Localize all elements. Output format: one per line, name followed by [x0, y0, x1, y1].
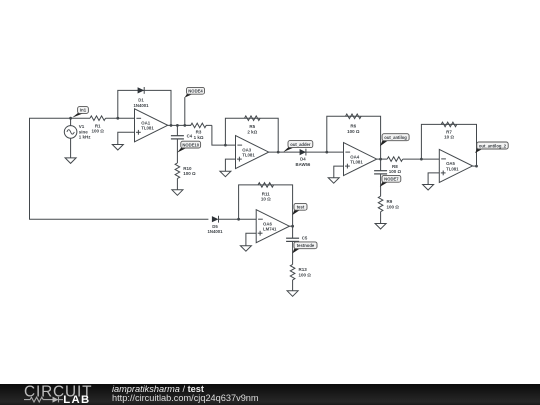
wire D5 to OA6 inverting input	[219, 218, 257, 220]
svg-text:TL081: TL081	[446, 166, 459, 171]
svg-text:1N4001: 1N4001	[133, 103, 149, 108]
node R7 feedback tap	[420, 158, 423, 161]
svg-text:D1: D1	[138, 98, 144, 103]
wire R6 feedback loop	[327, 116, 381, 159]
svg-text:BAW56: BAW56	[295, 162, 310, 167]
op-amp OA1 TL081	[135, 109, 168, 142]
node OA3 output junction	[277, 151, 280, 154]
node flag testnode	[292, 242, 317, 254]
capacitor C6	[374, 171, 387, 174]
node R11 feedback tap	[237, 218, 240, 221]
node NODE4 branch junction	[183, 124, 186, 127]
resistor R7	[441, 122, 457, 127]
svg-text:test: test	[297, 205, 305, 210]
capacitor C5	[286, 238, 299, 241]
svg-text:R7: R7	[446, 129, 452, 134]
value label D5 1N4001	[207, 224, 223, 234]
svg-text:D4: D4	[300, 157, 306, 162]
op-amp OA5 TL081	[439, 149, 472, 182]
resistor R11	[258, 183, 274, 188]
svg-text:10 Ω: 10 Ω	[261, 197, 271, 202]
resistor R13	[290, 264, 295, 280]
ground for OA6	[240, 246, 251, 252]
wire NODE4 stem	[184, 97, 186, 125]
wire OA6 output to C5	[292, 226, 294, 238]
svg-text:sine: sine	[79, 129, 89, 134]
svg-text:R9: R9	[387, 199, 393, 204]
svg-text:R3: R3	[196, 130, 202, 135]
footer text	[112, 385, 259, 403]
voltage source V1 sine	[64, 118, 77, 158]
svg-text:in1: in1	[80, 108, 87, 113]
value label R5 2 kOhm	[247, 124, 257, 134]
node flag out_antilog	[380, 134, 409, 147]
ground for R13	[287, 291, 298, 297]
ground for R9	[375, 224, 386, 230]
wire R13 to ground	[292, 280, 294, 291]
op-amp OA6 LM741	[256, 210, 289, 243]
wire D1 feedback loop	[118, 90, 171, 125]
svg-text:R8: R8	[392, 164, 398, 169]
svg-text:C4: C4	[187, 134, 193, 139]
node flag NODE10	[177, 141, 200, 152]
value label R7 10 Ohm	[444, 129, 454, 139]
node OA1 output junction	[170, 124, 173, 127]
ground for R10	[172, 190, 183, 196]
svg-text:TL081: TL081	[141, 126, 154, 131]
svg-text:R13: R13	[299, 267, 308, 272]
svg-text:100 Ω: 100 Ω	[299, 273, 312, 278]
value label R1 100 Ohm	[92, 123, 105, 133]
value label R8 100 Ohm	[389, 164, 402, 174]
svg-text:1 kΩ: 1 kΩ	[194, 135, 204, 140]
wire R3 to OA3 inverting input	[212, 125, 236, 145]
wire V1 to R1	[71, 117, 90, 119]
value label R9 100 Ohm	[387, 199, 400, 209]
value label R11 10 Ohm	[261, 191, 271, 201]
wire R5 feedback loop	[225, 118, 278, 152]
diode D1	[138, 87, 145, 94]
diode D5	[212, 216, 219, 223]
wire OA5 output	[473, 165, 477, 167]
svg-text:1N4001: 1N4001	[207, 229, 223, 234]
svg-text:100 Ω: 100 Ω	[183, 171, 196, 176]
svg-text:10 Ω: 10 Ω	[444, 135, 454, 140]
resistor R1	[90, 116, 106, 121]
value label R10 100 Ohm	[183, 166, 196, 176]
svg-text:R10: R10	[183, 166, 192, 171]
resistor R10	[175, 163, 180, 179]
svg-text:NODE7: NODE7	[384, 177, 399, 182]
node flag NODE4	[185, 87, 205, 97]
wire R8 to OA5 inverting input	[403, 158, 440, 160]
svg-text:out_antilog_2: out_antilog_2	[479, 143, 507, 148]
value label V1 sine 1 kHz	[79, 124, 92, 140]
wire R9 to ground	[380, 212, 382, 224]
node C4 branch junction	[176, 124, 179, 127]
wire OA3 output to OA4 inverting input	[269, 151, 344, 153]
value label D1 1N4001	[133, 98, 149, 108]
footer bar	[0, 384, 540, 405]
value label R13 100 Ohm	[299, 267, 312, 277]
ground for OA4	[328, 178, 339, 184]
node flag out_antilog_2	[475, 142, 508, 153]
wire C6 to R9	[380, 174, 382, 196]
wire OA4 output to R8	[377, 158, 388, 160]
svg-text:NODE10: NODE10	[182, 142, 199, 147]
wire input rail left	[30, 118, 209, 219]
svg-text:100 Ω: 100 Ω	[389, 169, 402, 174]
svg-text:D5: D5	[212, 224, 218, 229]
ground for OA3	[220, 171, 231, 177]
node flag test	[292, 203, 307, 215]
svg-text:100 Ω: 100 Ω	[92, 129, 105, 134]
node OA5 output junction	[475, 165, 478, 168]
svg-text:TL081: TL081	[242, 153, 255, 158]
wire OA1 output	[168, 124, 191, 126]
wire C5 to R13	[292, 241, 294, 264]
value label R3 1 kOhm	[194, 130, 204, 140]
wire R10 to ground	[176, 179, 178, 190]
svg-text:R5: R5	[249, 124, 255, 129]
wire OA5 noninverting input to ground	[428, 173, 439, 185]
node D1 feedback tap	[116, 117, 119, 120]
value label D4 BAW56	[295, 157, 310, 167]
ground for V1	[65, 158, 76, 164]
svg-text:V1: V1	[79, 124, 85, 129]
resistor R8	[387, 157, 403, 162]
wire R11 feedback loop	[239, 185, 293, 226]
svg-text:2 kΩ: 2 kΩ	[247, 129, 257, 134]
resistor R6	[346, 114, 362, 119]
svg-text:100 Ω: 100 Ω	[347, 129, 360, 134]
svg-text:NODE4: NODE4	[188, 89, 203, 94]
wire OA4 output to C6 branch	[380, 159, 382, 171]
node R6 feedback tap	[325, 151, 328, 154]
node OA4 output junction	[379, 158, 382, 161]
svg-text:out_antilog: out_antilog	[384, 135, 407, 140]
op-amp OA3 TL081	[236, 136, 269, 169]
svg-text:R6: R6	[350, 124, 356, 129]
node R5 feedback tap	[224, 144, 227, 147]
ground for OA5	[423, 185, 434, 191]
resistor R3	[185, 123, 212, 128]
wire R7 feedback loop	[421, 124, 476, 166]
wire C4 branch down	[176, 125, 178, 135]
svg-text:R1: R1	[95, 123, 101, 128]
wire OA4 noninverting input to ground	[334, 166, 344, 178]
resistor R5	[245, 116, 261, 121]
svg-text:1 kHz: 1 kHz	[79, 135, 92, 140]
capacitor C4	[171, 136, 184, 139]
svg-text:LM741: LM741	[263, 227, 277, 232]
resistor R9	[378, 196, 383, 212]
diode D4	[300, 149, 306, 156]
ground for OA1	[112, 145, 123, 151]
svg-text:C5: C5	[302, 235, 308, 240]
svg-text:testnode: testnode	[297, 243, 315, 248]
node flag in1	[72, 107, 88, 118]
wire OA6 noninverting input to ground	[246, 233, 256, 246]
wire R1 to OA1 inverting input	[106, 117, 135, 119]
wire OA3 noninverting input to ground	[225, 159, 235, 171]
CircuitLab logo	[0, 384, 92, 405]
value label R6 100 Ohm	[347, 124, 360, 134]
node flag NODE7	[380, 175, 401, 187]
svg-text:100 Ω: 100 Ω	[387, 204, 400, 209]
node flag out_adder	[283, 141, 313, 152]
wire OA6 output	[289, 225, 292, 227]
svg-text:LAB: LAB	[63, 395, 90, 405]
op-amp OA4 TL081	[344, 143, 377, 176]
wire C4 to R10	[176, 139, 178, 163]
svg-text:R11: R11	[262, 191, 271, 196]
svg-text:TL081: TL081	[350, 160, 363, 165]
wire OA1 noninverting input to ground	[118, 132, 135, 144]
svg-text:out_adder: out_adder	[290, 142, 311, 147]
node OA6 output junction	[291, 225, 294, 228]
node V1 top junction	[69, 117, 72, 120]
